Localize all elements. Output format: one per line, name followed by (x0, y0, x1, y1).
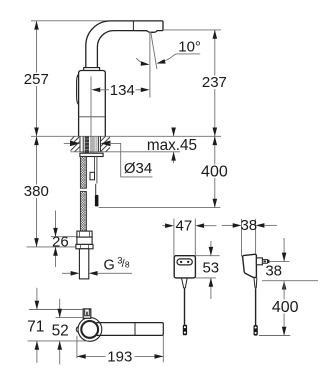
dim 193 (77, 335, 163, 365)
mounting flange (80, 153, 103, 156)
deck bottom line (71, 151, 181, 153)
dim 400 right (272, 281, 299, 336)
body bottom ext (262, 280, 318, 282)
svg-text:max.45: max.45 (147, 137, 197, 154)
cable plug (95, 195, 99, 207)
braided hose lower (80, 191, 86, 231)
dim 71 (27, 288, 44, 363)
dim 53 (195, 241, 219, 299)
dia34 arrows and leader (64, 141, 153, 177)
power supply body side (243, 254, 257, 277)
dim 47 (162, 218, 216, 256)
angle arc right segment (164, 54, 200, 61)
svg-text:38: 38 (240, 217, 257, 234)
plug pin (262, 259, 267, 263)
fitting band2 (77, 237, 92, 244)
svg-text:134: 134 (110, 82, 135, 99)
svg-text:237: 237 (202, 74, 227, 91)
braided hose upper (80, 157, 86, 189)
svg-text:26: 26 (52, 233, 69, 250)
deck top line (31, 135, 221, 137)
cable connector (183, 325, 187, 336)
base ring top view (81, 321, 98, 338)
hole edges (80, 136, 101, 152)
connector box (90, 172, 95, 180)
strain relief side (254, 278, 257, 289)
G3/8 arrows (62, 271, 132, 276)
centerline (90, 77, 92, 136)
dim 52 (52, 299, 69, 365)
power supply body front (174, 256, 195, 278)
dim 134 (91, 82, 149, 99)
body seam line (79, 116, 106, 118)
dim 237 (201, 30, 228, 136)
strain relief (182, 278, 188, 288)
dim 400 mid (201, 136, 228, 207)
cable to plug (95, 184, 97, 195)
fitting nut (76, 244, 93, 248)
angle arc left segment (136, 58, 144, 64)
ext line plug end (99, 207, 221, 209)
ext line spout tip right (164, 29, 221, 31)
faucet spout and riser outline (86, 21, 163, 68)
spout arm division line (132, 21, 134, 31)
svg-text:52: 52 (52, 323, 69, 340)
left clip bump (76, 327, 78, 333)
base outer circle (78, 318, 102, 342)
sensor window bulge (77, 74, 79, 104)
plug collar (256, 258, 262, 265)
shank detail in hole (83, 136, 98, 153)
svg-text:G: G (104, 257, 115, 273)
cable connector side (254, 325, 258, 336)
dim 380 (23, 136, 50, 247)
svg-text:8: 8 (125, 259, 130, 269)
dim 257 (23, 21, 50, 137)
cable end ext right (259, 335, 290, 337)
sensor tab top view (83, 309, 91, 318)
svg-text:38: 38 (265, 262, 282, 279)
outlet axis line (149, 32, 151, 98)
svg-text:380: 380 (24, 183, 49, 200)
svg-text:71: 71 (27, 319, 44, 336)
control tube (95, 157, 97, 184)
faucet collar (84, 68, 100, 71)
svg-text:10°: 10° (178, 38, 201, 55)
deck hatching left (59, 136, 95, 152)
threaded pipe G3/8 (79, 249, 88, 279)
dim 38 vertical (265, 238, 286, 290)
svg-text:53: 53 (202, 260, 219, 277)
svg-text:193: 193 (107, 348, 132, 365)
socket face (177, 259, 192, 265)
cable side (255, 288, 257, 325)
label max.45 (147, 128, 197, 164)
hose end fitting band1 (77, 231, 92, 237)
dim 26 (27, 211, 77, 268)
svg-text:47: 47 (176, 218, 193, 235)
svg-text:257: 257 (24, 71, 49, 88)
pin ext line (270, 260, 290, 262)
cable (184, 288, 186, 325)
spout bar top view (96, 323, 163, 336)
label G 3/8 (104, 255, 130, 273)
svg-text:400: 400 (201, 163, 228, 180)
top extension line (31, 20, 108, 22)
deck hatching right (90, 136, 121, 152)
ext lines top view (29, 309, 83, 311)
dim 38 top (222, 217, 277, 256)
10 deg stream line (151, 32, 157, 69)
svg-text:400: 400 (272, 299, 299, 316)
faucet body (79, 71, 106, 137)
svg-text:Ø34: Ø34 (124, 160, 152, 177)
